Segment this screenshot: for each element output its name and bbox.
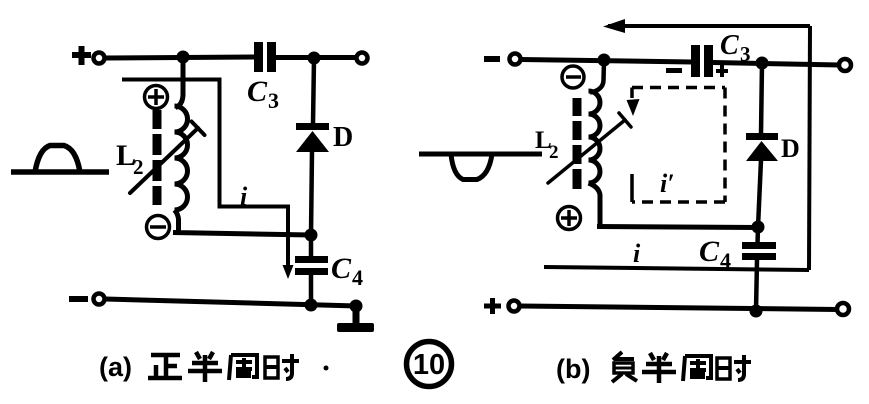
wire (b): junction down to coil	[590, 60, 604, 93]
svg-text:4: 4	[720, 248, 731, 273]
caption (a) character 半	[188, 352, 222, 382]
svg-text:i: i	[633, 239, 641, 268]
svg-text:2: 2	[549, 142, 559, 163]
label C4 (a)	[331, 252, 363, 290]
terminal circle (b) bottom-left	[509, 301, 520, 312]
inductor L2 (b) ferrite core dashed bar	[573, 98, 582, 189]
input waveform (b) negative half-cycle	[419, 154, 542, 180]
svg-text:C: C	[247, 75, 268, 108]
svg-text:(a): (a)	[99, 352, 132, 382]
caption (b) character 时	[717, 355, 751, 380]
wire bottom (b)	[520, 306, 838, 310]
label L2 (a)	[116, 139, 144, 179]
terminal circle (b) top-right	[839, 59, 851, 71]
terminal circle (b) top-left	[510, 54, 521, 65]
minus terminal label (a) bottom-left	[69, 296, 88, 302]
arrowhead (b) top pointing left	[603, 19, 625, 33]
terminal circle (b) bottom-right	[837, 303, 849, 315]
polarity minus symbol (a) bottom of L2	[147, 216, 170, 239]
capacitor C4 (b) plates	[742, 242, 776, 260]
svg-text:2: 2	[133, 155, 144, 179]
wire (a): C4 to bottom wire	[309, 275, 314, 305]
node junction (b) inner bottom right	[752, 221, 765, 234]
svg-text:C: C	[331, 252, 352, 285]
inductor L2 (a) adjustment arrow with T-bar	[130, 122, 205, 194]
caption (a) character 周	[229, 355, 257, 380]
wire (b): node to C4	[755, 227, 760, 244]
return wire (b): right vertical	[809, 26, 810, 270]
node junction (a) bottom at C4	[305, 299, 318, 312]
caption (b) character 负	[612, 352, 637, 382]
plus terminal label (a) top-left	[72, 46, 91, 65]
polarity plus sign right of C3 (b)	[716, 65, 728, 77]
inductor L2 (a) ferrite core dashed bar	[153, 110, 162, 205]
polarity plus symbol (a) top of L2	[145, 86, 168, 109]
wire top (a): terminal to C3	[105, 57, 254, 58]
label C3 (a)	[247, 75, 279, 113]
polarity minus sign left of C3 (b)	[666, 68, 682, 73]
svg-text:C: C	[720, 30, 739, 61]
inductor L2 (b) coil	[589, 91, 601, 183]
label L2 (b)	[535, 127, 559, 163]
diode D (b): wire down to node	[758, 160, 761, 227]
plus terminal label (b) bottom-left	[484, 298, 501, 314]
diode D (a) cathode bar	[296, 123, 329, 130]
svg-text:4: 4	[352, 265, 363, 290]
wire (a): junction down to coil L2	[176, 57, 184, 108]
svg-text:D: D	[781, 134, 800, 163]
polarity plus symbol (b) bottom of L2	[558, 207, 581, 230]
wire (b): C4 down to bottom wire	[756, 260, 757, 311]
capacitor C3 (b) plates	[691, 45, 713, 77]
inductor L2 (a) coil	[175, 106, 188, 210]
caption (a) character 正	[148, 355, 182, 378]
capacitor C3 (a) plates	[254, 42, 276, 72]
arrowhead (b) on dashed loop pointing down	[627, 99, 640, 116]
node junction (a) bottom at ground	[350, 300, 363, 313]
node junction (b) top at coil	[598, 54, 611, 67]
svg-text:i′: i′	[660, 169, 675, 198]
minus terminal label (b) top-left	[484, 56, 500, 62]
ground symbol (a)	[337, 306, 374, 332]
diode D (b) cathode bar	[746, 133, 778, 140]
terminal circle (a) top-left	[94, 53, 105, 64]
inductor L2 (b) adjustment arrow with T-bar	[548, 113, 631, 183]
wire (b): coil bottom down then right	[589, 183, 759, 228]
svg-text:D: D	[333, 122, 353, 153]
polarity minus symbol (b) top of L2	[562, 66, 584, 88]
dashed loop i' (b) box	[632, 88, 725, 203]
return wire (b): top line with left arrowhead	[608, 24, 810, 28]
caption (b) character 周	[683, 356, 711, 381]
svg-text:10: 10	[413, 349, 445, 381]
svg-text:(b): (b)	[556, 354, 590, 384]
wire bottom (a)	[105, 299, 357, 306]
terminal circle (a) bottom-left	[94, 294, 105, 305]
terminal circle (a) top-right	[357, 53, 368, 64]
current arrowhead i (a) pointing down	[283, 265, 294, 279]
label C3 (b)	[720, 30, 751, 66]
wire top (b): C3 to right terminal	[713, 63, 840, 66]
ink speck after caption (a)	[324, 366, 329, 371]
node junction (b) bottom at C4	[750, 305, 763, 318]
diode D (b) triangle (pointing up)	[746, 141, 778, 161]
current path i (a) thin bent wire	[122, 80, 288, 271]
capacitor C4 (a) plates	[295, 256, 328, 275]
wire (a): node to C4	[309, 235, 314, 258]
diode D (a) triangle (pointing up)	[296, 131, 329, 152]
label C4 (b)	[699, 235, 731, 273]
diode D (b): wire from top junction	[761, 63, 762, 134]
wire (a): coil bottom down and right to C4 node	[173, 210, 311, 235]
caption (b) character 半	[642, 353, 676, 383]
wire top (a): C3 to right terminal	[276, 55, 356, 60]
return wire (b): i line bottom	[544, 267, 809, 270]
node junction (b) at diode top	[756, 57, 769, 70]
caption (a) character 时	[265, 354, 299, 379]
svg-text:i: i	[240, 182, 248, 211]
input waveform (a) positive half-cycle	[11, 146, 109, 173]
diode D (a): wire from top junction	[313, 58, 314, 124]
node junction (a) top-right at x=314	[308, 52, 321, 65]
figure number 10 circled	[407, 342, 452, 387]
svg-text:C: C	[699, 235, 720, 268]
node junction (a) at C4 top	[305, 229, 318, 242]
diode D (a): wire down to C4 node	[311, 151, 312, 235]
wire top (b): terminal to C3	[521, 60, 692, 63]
node junction (a) top at x=183	[177, 51, 190, 64]
svg-text:3: 3	[268, 88, 279, 113]
